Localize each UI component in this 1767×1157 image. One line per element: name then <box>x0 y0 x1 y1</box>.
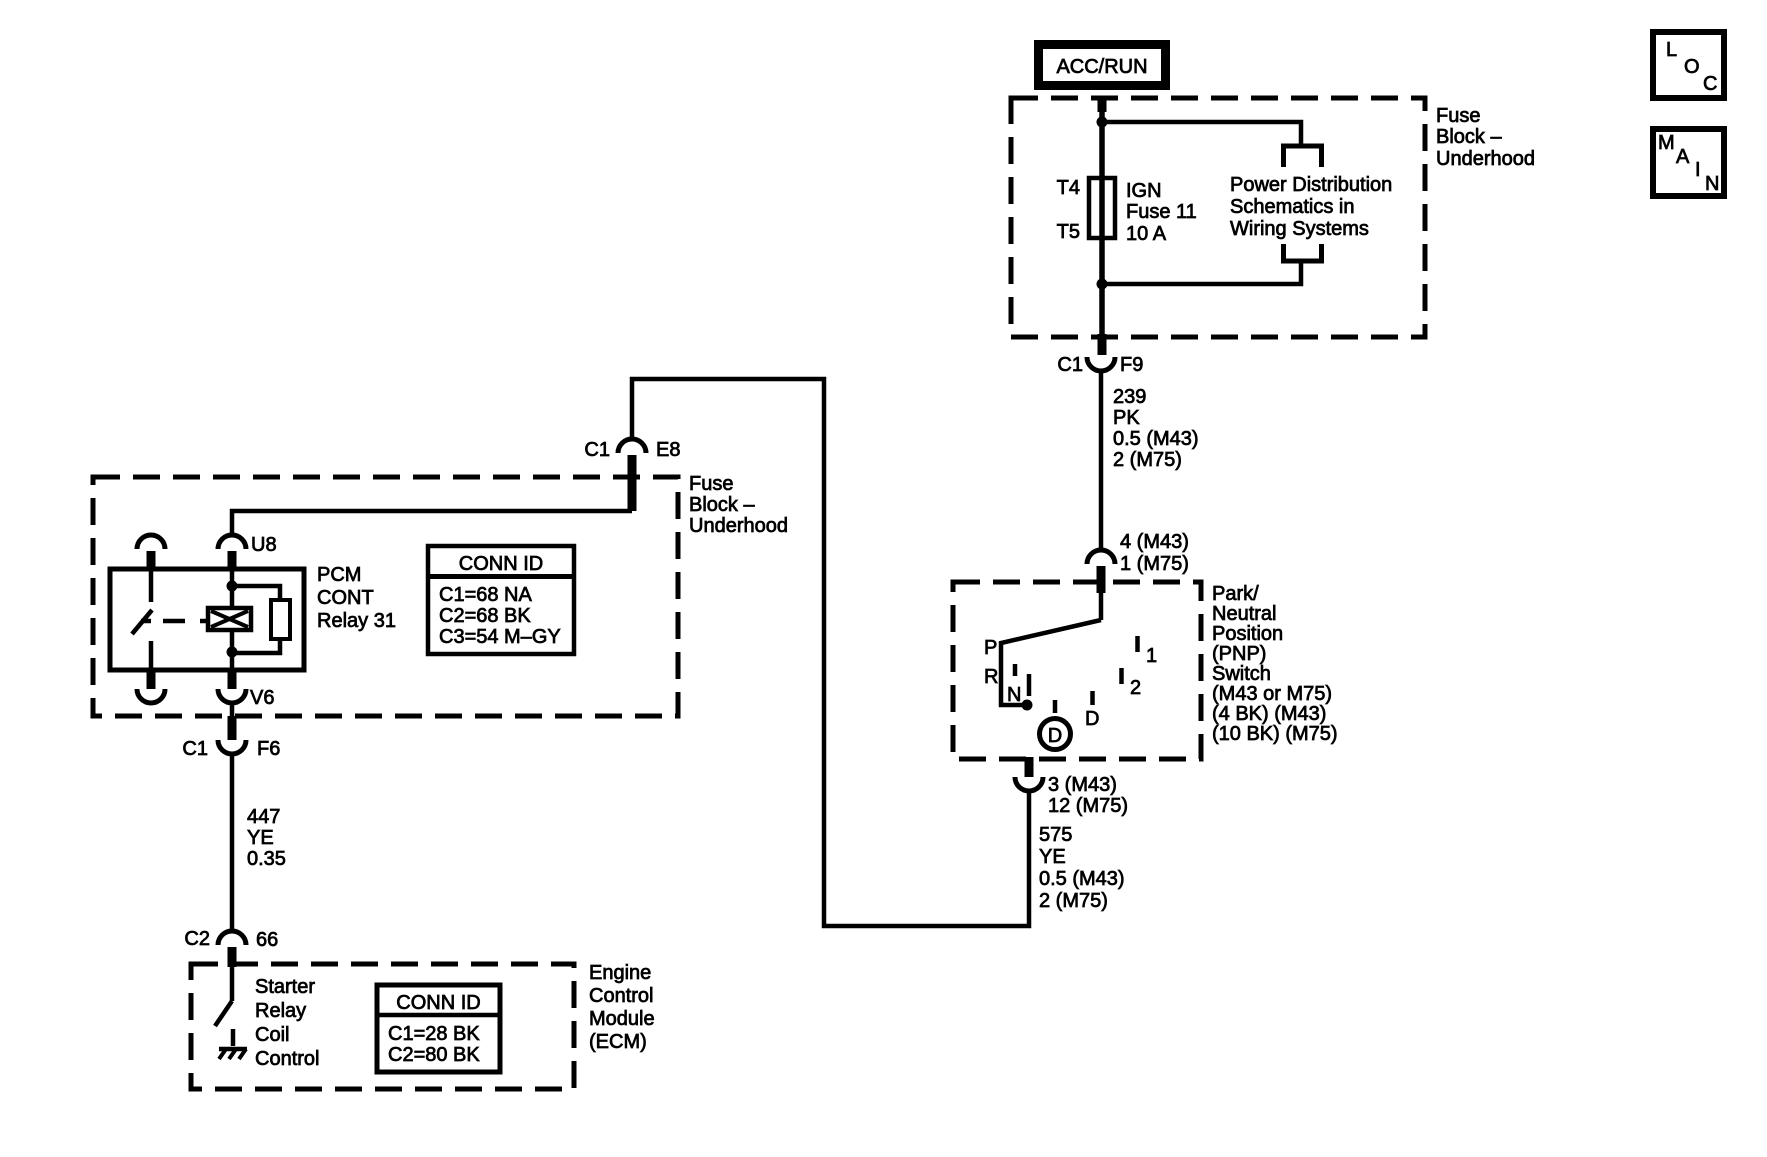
svg-text:Switch: Switch <box>1212 663 1271 685</box>
relay bottom-left pin connector <box>137 670 165 703</box>
svg-text:3 (M43): 3 (M43) <box>1048 774 1117 796</box>
connector U8 <box>218 534 277 570</box>
connector 4 (M43) 1 (M75) <box>1087 531 1189 593</box>
ACC/RUN power band box <box>1039 45 1166 86</box>
switch arm contact dot <box>1022 700 1033 711</box>
circled D terminal <box>1040 719 1071 750</box>
svg-text:D: D <box>1085 708 1099 730</box>
svg-text:Position: Position <box>1212 623 1283 645</box>
CONN ID table (ECM) <box>377 985 500 1072</box>
svg-text:4 (M43): 4 (M43) <box>1120 531 1189 553</box>
svg-text:12 (M75): 12 (M75) <box>1048 795 1128 817</box>
svg-text:Engine: Engine <box>589 962 651 984</box>
contact tick N <box>1027 674 1032 696</box>
svg-text:L: L <box>1666 39 1677 61</box>
svg-text:Control: Control <box>589 985 653 1007</box>
svg-text:O: O <box>1684 56 1700 78</box>
pin at bottom border crossing <box>1098 334 1107 355</box>
svg-text:Underhood: Underhood <box>1436 148 1535 170</box>
svg-text:C2=80 BK: C2=80 BK <box>388 1044 480 1066</box>
fuse value label <box>1126 180 1197 245</box>
svg-text:Park/: Park/ <box>1212 583 1259 605</box>
svg-text:(PNP): (PNP) <box>1212 643 1266 665</box>
connector 3 (M43) 12 (M75) <box>1015 774 1128 817</box>
relay switch blade <box>132 610 152 634</box>
fuse IGN Fuse 11 10A <box>1089 178 1115 238</box>
svg-text:C1: C1 <box>182 738 208 760</box>
relay switch fixed contact <box>149 569 154 602</box>
fuse block underhood (top right) dashed box <box>1011 98 1425 337</box>
svg-text:575: 575 <box>1039 824 1072 846</box>
relay coil feed wire <box>230 551 235 670</box>
wire 239 PK <box>1099 370 1104 551</box>
label power distribution reference <box>1230 174 1392 240</box>
contact tick 1 <box>1135 636 1140 652</box>
svg-text:Fuse 11: Fuse 11 <box>1126 201 1197 223</box>
label PCM CONT Relay 31 <box>317 564 396 632</box>
svg-text:PK: PK <box>1113 407 1140 429</box>
svg-text:C1: C1 <box>584 439 610 461</box>
svg-text:Control: Control <box>255 1048 319 1070</box>
svg-text:Underhood: Underhood <box>689 515 788 537</box>
node coil bottom <box>227 647 238 658</box>
switch arm <box>1001 620 1101 705</box>
wire from E8 to relay coil feed U8 <box>232 511 632 536</box>
svg-text:10 A: 10 A <box>1126 223 1167 245</box>
svg-text:M: M <box>1658 132 1675 154</box>
label Fuse Block - Underhood (left) <box>689 473 788 537</box>
relay switch lower contact <box>149 641 154 670</box>
wire into ECM <box>230 967 235 1001</box>
svg-text:C1: C1 <box>1057 354 1083 376</box>
relay top-left pin connector <box>137 535 165 570</box>
resistor branch wire bottom <box>232 637 280 653</box>
svg-text:1: 1 <box>1146 645 1157 667</box>
connector C1 F9 <box>1057 354 1143 376</box>
svg-text:0.5 (M43): 0.5 (M43) <box>1113 428 1199 450</box>
pin at top border crossing <box>1098 97 1107 112</box>
svg-text:I: I <box>1695 159 1701 181</box>
svg-text:T5: T5 <box>1057 221 1080 243</box>
svg-text:66: 66 <box>256 929 278 951</box>
svg-text:YE: YE <box>1039 846 1066 868</box>
svg-text:Neutral: Neutral <box>1212 603 1276 625</box>
svg-text:U8: U8 <box>251 534 277 556</box>
svg-text:IGN: IGN <box>1126 180 1162 202</box>
contact tick D position <box>1053 700 1058 713</box>
svg-text:CONN ID: CONN ID <box>396 992 480 1014</box>
svg-text:2 (M75): 2 (M75) <box>1113 449 1182 471</box>
svg-text:A: A <box>1676 146 1690 168</box>
label PNP switch <box>1212 583 1338 745</box>
svg-text:D: D <box>1048 725 1062 747</box>
node junction top <box>1097 117 1108 128</box>
svg-text:N: N <box>1705 173 1719 195</box>
LOC box <box>1653 32 1724 98</box>
svg-text:(4 BK) (M43): (4 BK) (M43) <box>1212 703 1326 725</box>
ground <box>219 1049 247 1059</box>
svg-text:(M43 or M75): (M43 or M75) <box>1212 683 1332 705</box>
wire from ACC/RUN down through fuse block <box>1099 98 1105 336</box>
wire 447 YE <box>230 753 235 932</box>
label Fuse Block - Underhood (top right) <box>1436 105 1535 170</box>
resistor branch wire top <box>232 586 280 602</box>
pin at left fuse block bottom border <box>228 716 237 740</box>
resistor <box>271 600 290 639</box>
svg-text:E8: E8 <box>656 439 680 461</box>
svg-text:C2=68 BK: C2=68 BK <box>439 605 531 627</box>
svg-text:Fuse: Fuse <box>689 473 733 495</box>
contact tick 2 <box>1119 668 1124 684</box>
contact tick D <box>1090 691 1095 705</box>
relay actuation dashed link <box>141 619 208 624</box>
svg-text:CONT: CONT <box>317 587 374 609</box>
svg-text:447: 447 <box>247 806 280 828</box>
ECM driver switch blade <box>215 1001 232 1026</box>
CONN ID table (fuse block) <box>428 546 574 654</box>
svg-text:CONN ID: CONN ID <box>459 553 543 575</box>
svg-text:C1=68 NA: C1=68 NA <box>439 584 532 606</box>
svg-text:PCM: PCM <box>317 564 361 586</box>
fuse block underhood (left) dashed box <box>93 477 678 716</box>
pin at PNP bottom border <box>1025 757 1034 777</box>
svg-text:2: 2 <box>1130 677 1141 699</box>
svg-text:C1=28 BK: C1=28 BK <box>388 1023 480 1045</box>
svg-text:F9: F9 <box>1120 354 1143 376</box>
relay coil <box>208 608 251 630</box>
svg-text:Coil: Coil <box>255 1024 289 1046</box>
svg-text:Relay: Relay <box>255 1000 306 1022</box>
svg-text:P: P <box>984 637 997 659</box>
svg-text:0.5 (M43): 0.5 (M43) <box>1039 868 1125 890</box>
wire 575 YE <box>632 379 1029 926</box>
svg-text:Power Distribution: Power Distribution <box>1230 174 1392 196</box>
wire label 447 YE <box>247 806 286 870</box>
node coil top <box>227 581 238 592</box>
wire label 575 YE <box>1039 824 1125 912</box>
connector C1 F6 <box>182 738 280 760</box>
off-page bracket top (power distribution) <box>1284 146 1322 167</box>
connector V6 <box>218 670 274 709</box>
wire into switch <box>1099 593 1104 620</box>
svg-text:Block –: Block – <box>1436 126 1502 148</box>
contact tick R <box>1013 664 1018 676</box>
svg-text:Relay 31: Relay 31 <box>317 610 396 632</box>
svg-text:(ECM): (ECM) <box>589 1031 647 1053</box>
svg-text:C: C <box>1703 73 1717 95</box>
svg-text:Module: Module <box>589 1008 655 1030</box>
MAIN box <box>1653 129 1724 196</box>
connector C2 66 <box>184 928 278 967</box>
svg-text:C3=54 M–GY: C3=54 M–GY <box>439 626 561 648</box>
svg-text:239: 239 <box>1113 386 1146 408</box>
wire V6 to border <box>230 702 235 716</box>
engine control module dashed box <box>191 964 574 1089</box>
svg-text:ACC/RUN: ACC/RUN <box>1056 56 1147 78</box>
svg-text:R: R <box>984 666 998 688</box>
wire label 239 PK <box>1113 386 1199 471</box>
svg-text:Wiring Systems: Wiring Systems <box>1230 218 1369 240</box>
node junction bottom <box>1097 279 1108 290</box>
svg-text:T4: T4 <box>1057 177 1080 199</box>
svg-text:Schematics in: Schematics in <box>1230 196 1355 218</box>
wire from bracket bottom back to main wire <box>1102 261 1301 284</box>
park/neutral position switch dashed box <box>953 582 1201 759</box>
ECM switch lower stub <box>231 1029 236 1046</box>
svg-text:Block –: Block – <box>689 494 755 516</box>
svg-text:Fuse: Fuse <box>1436 105 1480 127</box>
wire branch to power distribution bracket <box>1102 122 1301 148</box>
svg-text:0.35: 0.35 <box>247 848 286 870</box>
off-page bracket bottom (power distribution) <box>1284 244 1322 261</box>
svg-text:(10 BK) (M75): (10 BK) (M75) <box>1212 723 1338 745</box>
relay PCM CONT Relay 31 box <box>110 569 304 670</box>
svg-text:1 (M75): 1 (M75) <box>1120 553 1189 575</box>
svg-text:F6: F6 <box>257 738 280 760</box>
svg-text:N: N <box>1007 684 1021 706</box>
label Starter Relay Coil Control <box>255 976 319 1070</box>
connector C1 E8 <box>584 439 680 511</box>
svg-text:C2: C2 <box>184 928 210 950</box>
label Engine Control Module (ECM) <box>589 962 655 1053</box>
svg-text:YE: YE <box>247 827 274 849</box>
svg-text:Starter: Starter <box>255 976 315 998</box>
svg-text:V6: V6 <box>250 687 274 709</box>
svg-text:2 (M75): 2 (M75) <box>1039 890 1108 912</box>
